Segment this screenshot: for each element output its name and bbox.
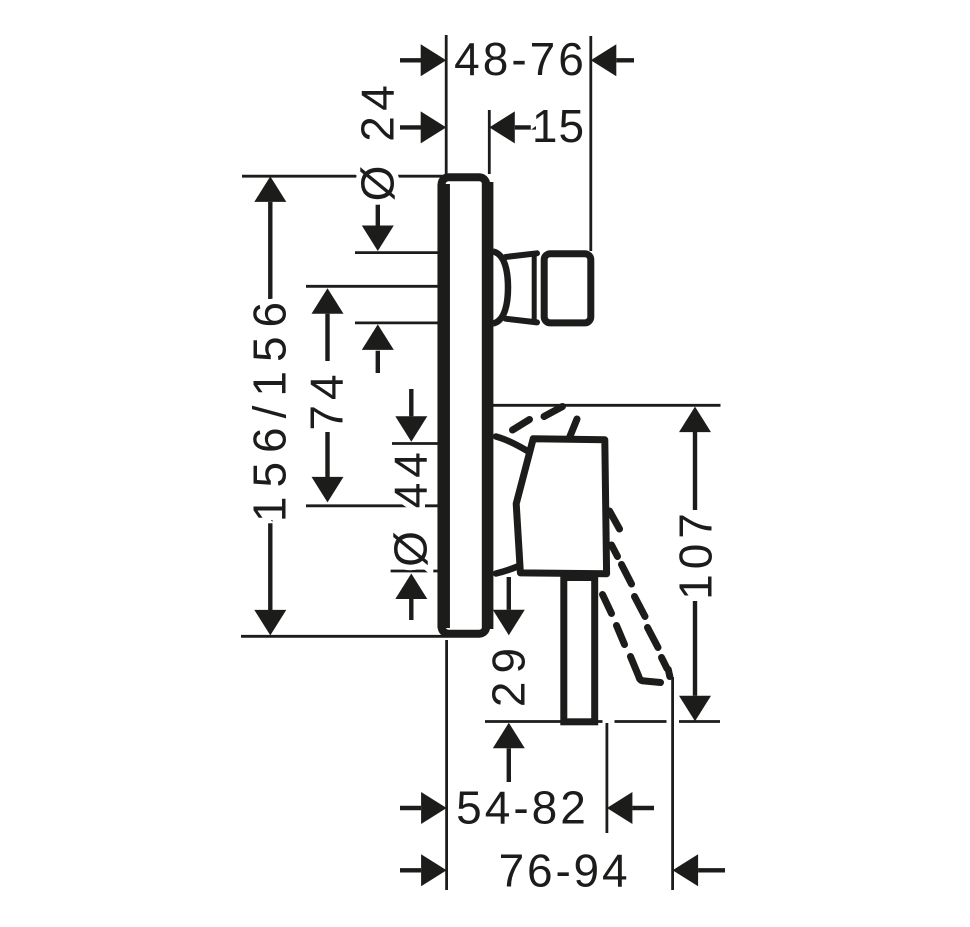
- lever arm (solid, vertical): [564, 578, 595, 722]
- wire: wall-face extension line (bottom, x=446.6): [445, 640, 448, 890]
- dimension Ø44: handle hub diameter: [409, 389, 413, 416]
- dimension 48-76: horizontal, top: [400, 58, 421, 62]
- dashed lowered lever: right edge dash D5: [648, 628, 659, 648]
- svg-text:107: 107: [669, 508, 721, 600]
- wire: knob-bottom extension line (y=322.9): [355, 321, 438, 324]
- svg-text:74: 74: [300, 369, 352, 430]
- svg-text:76-94: 76-94: [499, 844, 631, 896]
- dashed lowered lever: left edge dash E1: [603, 595, 612, 614]
- dimension 29: plate bottom to lever end: [507, 577, 511, 610]
- svg-text:29: 29: [482, 640, 534, 707]
- wire: hub-top extension line (y=443.5): [392, 442, 438, 445]
- plate back face (thick left edge): [437, 184, 450, 628]
- wire: knob-top extension line (y=252.6): [355, 251, 438, 254]
- wire: hub-bottom extension line (y=571): [391, 570, 438, 573]
- dashed lowered lever: left edge dash E2: [617, 626, 625, 645]
- dimension 15: plate thickness: [400, 125, 421, 129]
- dimension 156/156: plate height: [254, 176, 286, 202]
- dimension Ø24: knob diameter, vertical at x=377.8: [376, 204, 380, 227]
- wire: lever-end extension line (x=606.9): [606, 723, 609, 833]
- knob sleeve front edge: [532, 256, 537, 321]
- svg-text:156/156: 156/156: [243, 293, 295, 522]
- wire: raised-lever-top extension line (y=405.3): [493, 404, 721, 407]
- svg-text:15: 15: [532, 100, 585, 152]
- dashed lowered lever: right edge dash D4: [635, 597, 646, 617]
- dashed lowered lever: tip corner G: [668, 670, 670, 677]
- dashed raised lever: segment A: [513, 420, 530, 431]
- wire: plate-front extension line (x=489): [488, 110, 491, 174]
- dashed raised lever: tip cap C: [570, 419, 578, 438]
- handle escutcheon cone, lower edge: [496, 560, 534, 574]
- wire: handle-centre extension line (y=505.8): [306, 504, 438, 507]
- dimension 76-94: wall to dashed lever tip: [400, 868, 421, 872]
- wire: lever-tip extension line (y=721.5): [485, 720, 603, 723]
- svg-text:Ø 44: Ø 44: [384, 447, 436, 567]
- check-valve knob escutcheon dome arc: [493, 252, 508, 324]
- lever handle hub (trapezoid body): [516, 439, 606, 574]
- wire: knob-end extension line (x=591): [589, 36, 592, 251]
- dashed lowered lever: right edge dash D1: [610, 511, 620, 529]
- escutcheon plate (side view, rounded rect): [442, 177, 487, 633]
- dashed lowered lever: right edge dash D2: [612, 545, 618, 557]
- svg-text:54-82: 54-82: [456, 782, 589, 834]
- check-valve knob (rounded cap): [544, 254, 591, 323]
- handle escutcheon cone, upper edge: [496, 437, 534, 456]
- svg-text:48-76: 48-76: [454, 33, 587, 85]
- plate front face (thick right edge): [482, 182, 494, 629]
- knob sleeve top edge: [506, 253, 538, 257]
- knob sleeve bottom edge: [506, 319, 538, 323]
- dimension 74: knob centre to handle centre: [312, 288, 344, 314]
- wire: plate-bottom extension line (y=636.3): [241, 635, 448, 638]
- dimension 54-82: wall to lever end: [400, 806, 421, 810]
- wire: knob-centre extension line (y=286.3): [306, 285, 438, 288]
- wire: plate-top extension line (y=176): [242, 175, 443, 178]
- dashed lowered lever: right edge dash D6: [662, 658, 668, 669]
- wire: dashed-lever-tip extension line (x=672.6): [671, 677, 674, 890]
- svg-text:Ø 24: Ø 24: [352, 80, 404, 202]
- dashed raised lever: segment B: [544, 407, 563, 417]
- dashed lowered lever: left edge dash E3 + end cap F: [631, 657, 661, 683]
- wire: wall-face extension line (top, x=446): [445, 35, 448, 176]
- dimension 107: handle travel height: [679, 407, 711, 433]
- dashed lowered lever: right edge dash D3: [622, 565, 632, 585]
